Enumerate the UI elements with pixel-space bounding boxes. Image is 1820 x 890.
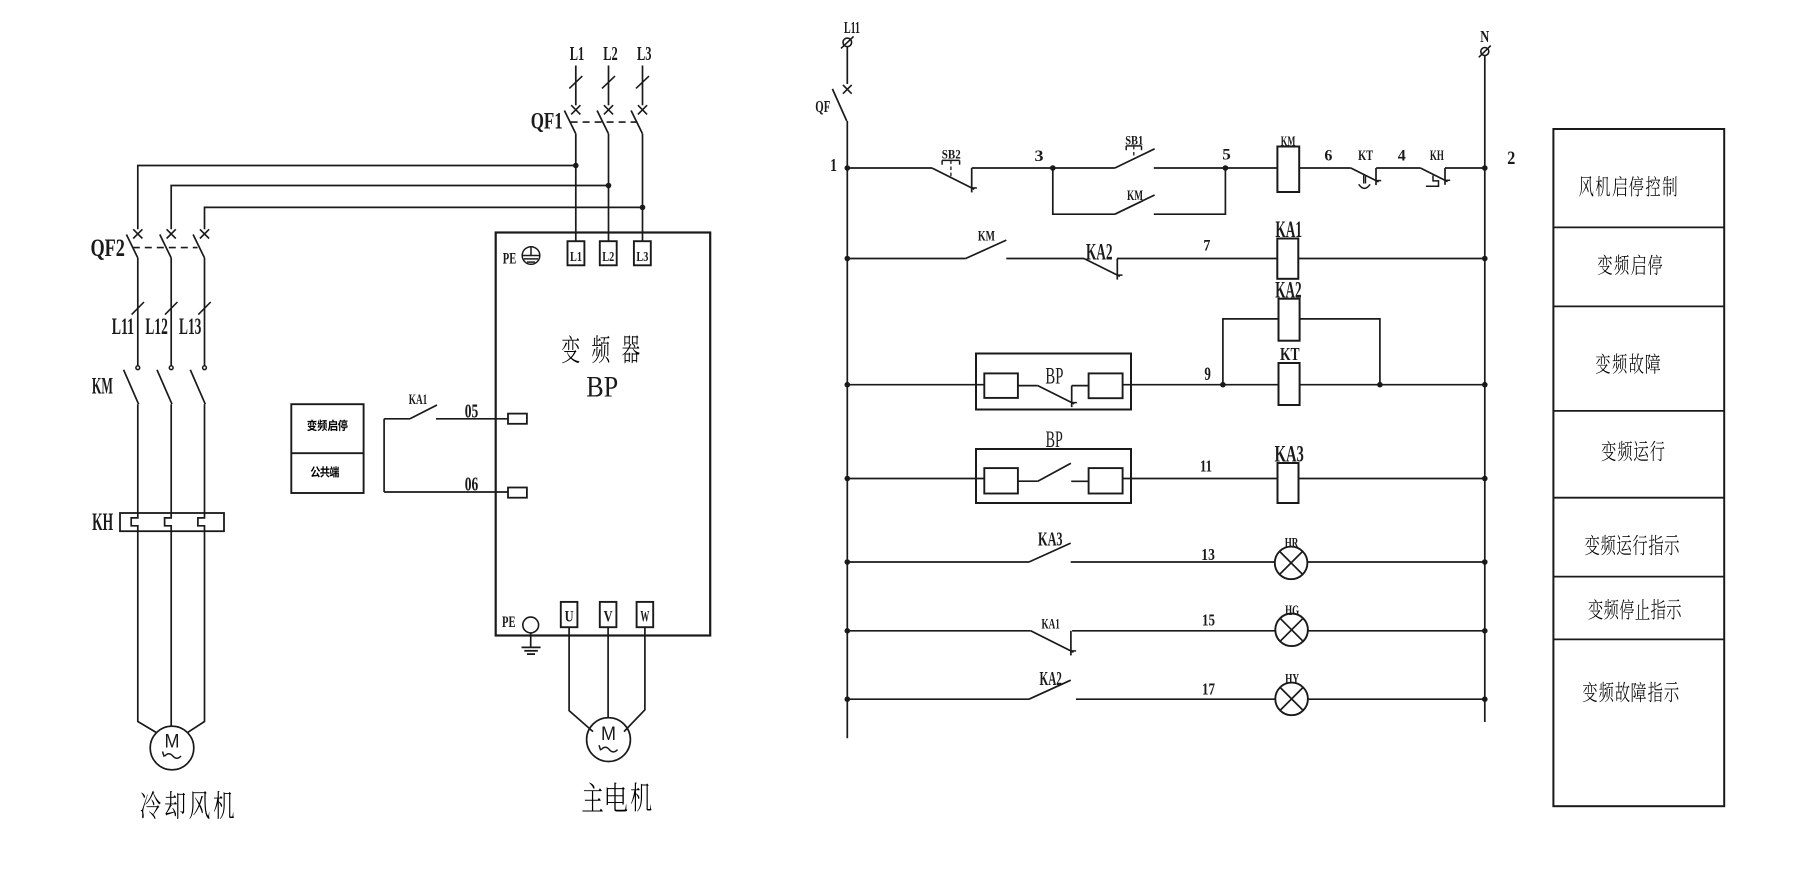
PE ground terminal xyxy=(502,614,539,633)
self-holding contact KM xyxy=(1053,168,1226,214)
svg-text:6: 6 xyxy=(1324,147,1332,164)
wire row1 c xyxy=(1053,167,1115,169)
svg-text:BP: BP xyxy=(1045,363,1063,388)
svg-text:L11: L11 xyxy=(112,314,134,339)
VFD input terminal L1 xyxy=(568,241,585,265)
wire row3 c xyxy=(1223,384,1279,386)
wire QF2 output L11 xyxy=(132,258,144,366)
wire QF1 L2 output xyxy=(608,134,610,241)
VFD control terminal 05 xyxy=(465,401,527,424)
time relay coil KT xyxy=(1279,344,1300,405)
auxiliary contact KM (NO) xyxy=(966,229,1007,259)
relay contact KA1 (run command) xyxy=(384,392,508,419)
VFD control terminal 06 xyxy=(465,474,527,498)
row4 left node xyxy=(845,476,851,482)
wire KH to fan motor phase C xyxy=(188,531,205,732)
wire W to main motor xyxy=(624,627,645,731)
right rail N xyxy=(1484,56,1486,723)
wire row2 b xyxy=(1006,258,1084,260)
svg-text:QF1: QF1 xyxy=(531,109,563,134)
table row label 变频故障指示 xyxy=(1583,682,1679,703)
function description table frame xyxy=(1553,129,1724,806)
svg-text:L12: L12 xyxy=(145,314,167,339)
svg-text:17: 17 xyxy=(1202,680,1215,699)
table row label 变频停止指示 xyxy=(1588,599,1680,620)
wire tap to QF2 phase A xyxy=(138,166,576,230)
wire tap to QF2 phase C xyxy=(205,207,643,229)
left rail xyxy=(846,121,848,738)
relay coil KA1 xyxy=(1275,217,1302,279)
relay contact KA2 (NO) xyxy=(1029,668,1071,699)
node 3 xyxy=(1035,148,1056,171)
row5 left node xyxy=(845,559,851,565)
wire KH to fan motor phase B xyxy=(170,531,172,726)
row6 left node xyxy=(845,628,851,634)
row2 left node xyxy=(845,256,851,262)
svg-text:M: M xyxy=(165,730,180,752)
circuit breaker QF1 xyxy=(531,105,647,134)
svg-text:KT: KT xyxy=(1280,344,1300,364)
wire tap to QF2 phase B xyxy=(171,186,608,230)
svg-text:KM: KM xyxy=(92,373,113,398)
node L11 label xyxy=(112,314,134,339)
wire row1 g xyxy=(1376,148,1420,169)
svg-text:4: 4 xyxy=(1398,148,1406,165)
svg-text:N: N xyxy=(1480,27,1490,46)
main motor M xyxy=(587,718,631,762)
label cooling fan xyxy=(141,791,234,819)
svg-text:15: 15 xyxy=(1202,611,1215,630)
svg-text:KA1: KA1 xyxy=(409,392,428,408)
svg-text:KA1: KA1 xyxy=(1042,617,1060,633)
svg-text:L2: L2 xyxy=(603,43,618,65)
wire row6 b xyxy=(1072,611,1275,631)
VFD output terminal W xyxy=(637,602,654,627)
pushbutton SB1 (start, NO) xyxy=(1115,132,1155,168)
indicator lamp HG (stop) xyxy=(1275,603,1308,646)
wire row5 c xyxy=(1307,561,1484,563)
svg-text:3: 3 xyxy=(1035,148,1044,165)
wire QF1 L1 output xyxy=(575,134,577,241)
node L12 label xyxy=(145,314,167,339)
node row3 right branch xyxy=(1377,382,1383,388)
row7 right node xyxy=(1482,696,1488,702)
label VFD model BP xyxy=(586,371,618,404)
VFD output terminal U xyxy=(561,602,578,627)
relay contact KA1 (NC) xyxy=(1031,617,1076,656)
row5 right node xyxy=(1482,559,1488,565)
PE terminal symbol xyxy=(503,247,540,268)
wire row4 c xyxy=(1299,478,1485,480)
svg-text:QF2: QF2 xyxy=(90,235,125,262)
svg-text:W: W xyxy=(640,609,649,626)
contactor KM main contacts xyxy=(92,366,207,404)
pushbutton SB2 (stop, NC) xyxy=(932,146,977,192)
node 5 xyxy=(1222,147,1231,171)
svg-text:M: M xyxy=(601,723,616,745)
wire 06 common xyxy=(384,491,508,493)
thermal overload relay KH xyxy=(92,509,224,536)
wire QF2 output L12 xyxy=(165,258,177,366)
contactor coil KM xyxy=(1277,134,1299,192)
disconnect QF xyxy=(815,47,851,121)
ground symbol xyxy=(522,633,541,654)
incoming supply phase L2 xyxy=(602,43,618,105)
wire KA1 left leg xyxy=(383,419,385,492)
svg-text:HR: HR xyxy=(1285,536,1299,552)
VFD input terminal L3 xyxy=(634,241,651,265)
node L13 label xyxy=(179,314,201,339)
wire row3 a xyxy=(847,384,984,386)
table row label 变频故障 xyxy=(1596,353,1660,374)
relay contact KA2 (NC) xyxy=(1084,240,1123,280)
wire row3 d xyxy=(1300,384,1380,386)
wire row4 a xyxy=(847,478,984,480)
svg-text:HY: HY xyxy=(1285,672,1299,688)
table row label 变频运行 xyxy=(1602,441,1665,462)
relay contact KA3 (NO) xyxy=(1029,529,1071,562)
wire row2 c xyxy=(1117,237,1277,258)
neutral rail N terminal xyxy=(1479,27,1491,57)
wire row5 a xyxy=(847,561,1029,563)
thermal contact KH (NC) xyxy=(1420,148,1450,186)
relay coil KA2 (parallel) xyxy=(1223,278,1380,385)
wire row3 e xyxy=(1380,384,1485,386)
junction tap phase B xyxy=(606,183,612,189)
wire row6 c xyxy=(1308,630,1485,632)
svg-text:KT: KT xyxy=(1358,148,1373,164)
svg-text:7: 7 xyxy=(1203,237,1210,254)
node 9 xyxy=(1220,382,1226,388)
svg-text:L11: L11 xyxy=(844,18,860,37)
svg-text:L3: L3 xyxy=(637,43,652,65)
incoming supply phase L1 xyxy=(569,43,584,105)
wire KM to KH phase C xyxy=(204,404,206,513)
row4 right node xyxy=(1482,476,1488,482)
cooling fan motor M xyxy=(150,726,194,770)
svg-text:L1: L1 xyxy=(570,250,582,265)
wire row1 b xyxy=(972,167,1053,169)
svg-text:5: 5 xyxy=(1222,147,1231,164)
svg-text:U: U xyxy=(565,609,574,626)
svg-text:V: V xyxy=(604,609,614,626)
indicator lamp HY (fault) xyxy=(1275,672,1308,716)
wire KM to KH phase A xyxy=(137,404,139,513)
svg-text:PE: PE xyxy=(503,251,517,268)
wire row6 a xyxy=(847,630,1030,632)
phase rail L11 terminal xyxy=(841,18,860,48)
circuit breaker QF2 xyxy=(90,229,209,262)
table row label 变频运行指示 xyxy=(1585,535,1679,556)
VFD run contact BP xyxy=(976,427,1131,503)
wire row1 e xyxy=(1225,167,1277,169)
wire V to main motor xyxy=(607,627,609,718)
svg-text:13: 13 xyxy=(1201,545,1215,564)
row3 right node xyxy=(1482,382,1488,388)
wire QF2 output L13 xyxy=(198,258,210,366)
wire row2 a xyxy=(847,258,965,260)
svg-text:KA3: KA3 xyxy=(1038,529,1063,551)
wire row1 h xyxy=(1445,167,1485,169)
relay coil KA3 xyxy=(1275,442,1304,503)
svg-text:KH: KH xyxy=(1430,148,1444,164)
svg-text:L13: L13 xyxy=(179,314,201,339)
svg-text:SB2: SB2 xyxy=(942,146,961,161)
wire KM to KH phase B xyxy=(170,404,172,513)
row3 left node xyxy=(845,382,851,388)
svg-text:BP: BP xyxy=(586,371,618,404)
svg-text:1: 1 xyxy=(830,155,837,175)
indicator lamp HR (run) xyxy=(1275,536,1308,580)
wire U to main motor xyxy=(569,627,593,731)
node 2 xyxy=(1482,148,1515,171)
table row label 风机启停控制 xyxy=(1579,176,1677,197)
label VFD name xyxy=(562,335,640,363)
svg-text:PE: PE xyxy=(502,614,516,631)
wire QF1 L3 output xyxy=(642,134,644,241)
svg-text:2: 2 xyxy=(1507,148,1515,169)
incoming supply phase L3 xyxy=(636,43,651,105)
svg-text:QF: QF xyxy=(815,97,830,116)
wire row5 b xyxy=(1071,545,1275,564)
wire KH to fan motor phase A xyxy=(138,531,157,732)
svg-text:11: 11 xyxy=(1200,456,1212,475)
table row label 变频启停 xyxy=(1598,255,1662,276)
svg-text:L2: L2 xyxy=(602,250,614,265)
wire row7 b xyxy=(1076,680,1275,700)
node 1 xyxy=(830,155,850,175)
wire row1 d xyxy=(1154,167,1226,169)
junction tap phase C xyxy=(640,205,646,211)
svg-text:L3: L3 xyxy=(636,250,648,265)
VFD output terminal V xyxy=(600,602,617,627)
VFD fault contact BP xyxy=(976,354,1131,410)
row7 left node xyxy=(845,696,851,702)
control box run/stop xyxy=(291,404,363,493)
wire row1 f xyxy=(1299,147,1351,168)
svg-text:KH: KH xyxy=(92,509,113,536)
svg-text:L1: L1 xyxy=(570,43,585,65)
wire row7 c xyxy=(1308,698,1485,700)
VFD enclosure box BP xyxy=(496,233,711,636)
svg-text:SB1: SB1 xyxy=(1125,132,1143,147)
svg-text:HG: HG xyxy=(1285,603,1299,619)
wire row3 b xyxy=(1123,364,1223,385)
row2 right node xyxy=(1482,256,1488,262)
label main motor xyxy=(582,782,651,811)
wire row7 a xyxy=(847,698,1029,700)
wire row4 b xyxy=(1123,456,1278,478)
wire row1 a xyxy=(847,167,932,169)
svg-text:KM: KM xyxy=(978,229,995,245)
VFD input terminal L2 xyxy=(600,241,617,265)
time relay contact KT (NC, on-delay) xyxy=(1351,148,1381,188)
wire row2 d xyxy=(1298,258,1485,260)
row6 right node xyxy=(1482,628,1488,634)
junction tap phase A xyxy=(573,163,579,169)
svg-text:9: 9 xyxy=(1204,364,1211,385)
